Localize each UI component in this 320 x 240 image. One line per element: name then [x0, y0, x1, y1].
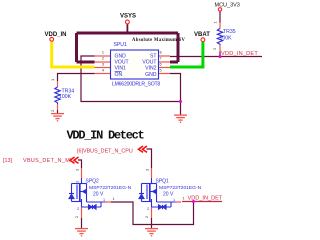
svg-text:VDD_IN_DET: VDD_IN_DET — [221, 51, 258, 57]
svg-text:3: 3 — [102, 63, 104, 67]
svg-text:VIN2: VIN2 — [145, 66, 156, 72]
svg-text:100K: 100K — [220, 36, 233, 42]
svg-text:1: 1 — [173, 198, 175, 202]
svg-text:2: 2 — [75, 216, 79, 218]
svg-text:3: 3 — [146, 169, 150, 171]
svg-text:2: 2 — [145, 216, 149, 218]
svg-text:2: 2 — [147, 207, 149, 211]
svg-text:1: 1 — [213, 21, 218, 24]
svg-text:VDD_IN: VDD_IN — [45, 32, 67, 38]
svg-text:VSYS: VSYS — [120, 14, 136, 20]
svg-text:MSP723T201EG-N: MSP723T201EG-N — [159, 185, 202, 191]
svg-text:SPQ1: SPQ1 — [156, 179, 170, 185]
svg-text:VBUS_DET_N_MI: VBUS_DET_N_MI — [23, 158, 72, 164]
svg-text:20 V: 20 V — [163, 192, 174, 198]
svg-text:2: 2 — [102, 57, 104, 61]
svg-text:MSP723T201EG-N: MSP723T201EG-N — [89, 185, 132, 191]
svg-text:[6]VBUS_DET_N_CPU: [6]VBUS_DET_N_CPU — [77, 148, 133, 154]
svg-text:20 V: 20 V — [93, 192, 104, 198]
svg-text:1: 1 — [103, 198, 105, 202]
svg-text:1: 1 — [183, 197, 185, 201]
svg-text:LM66200DRLR_SOT8: LM66200DRLR_SOT8 — [112, 82, 160, 88]
svg-text:VDD_IN_DET: VDD_IN_DET — [188, 196, 223, 202]
svg-text:[13]: [13] — [3, 158, 12, 164]
svg-text:VDD_IN Detect: VDD_IN Detect — [67, 129, 145, 143]
svg-text:5: 5 — [160, 69, 162, 73]
svg-text:2: 2 — [212, 47, 217, 50]
svg-text:3: 3 — [76, 181, 80, 183]
svg-text:8: 8 — [160, 51, 162, 55]
svg-text:ST: ST — [150, 54, 157, 60]
svg-text:7: 7 — [160, 57, 162, 61]
svg-text:MCU_3V3: MCU_3V3 — [215, 2, 240, 8]
svg-text:VBAT: VBAT — [194, 32, 210, 38]
svg-text:TR35: TR35 — [223, 29, 236, 35]
svg-text:SPQ2: SPQ2 — [86, 179, 100, 185]
svg-text:2: 2 — [77, 207, 79, 211]
svg-text:ON: ON — [115, 72, 123, 78]
svg-text:100K: 100K — [59, 94, 72, 100]
svg-text:Absolute Maximum 6V: Absolute Maximum 6V — [132, 38, 186, 43]
svg-text:GND: GND — [115, 54, 127, 60]
svg-text:6: 6 — [160, 63, 162, 67]
svg-text:4: 4 — [102, 69, 104, 73]
svg-text:VIN1: VIN1 — [115, 66, 126, 72]
svg-text:GND: GND — [145, 72, 157, 78]
svg-text:2: 2 — [50, 109, 55, 112]
svg-text:1: 1 — [50, 78, 55, 81]
svg-text:3: 3 — [76, 169, 80, 171]
svg-text:SPU1: SPU1 — [114, 42, 127, 48]
svg-text:1: 1 — [102, 51, 104, 55]
svg-text:1: 1 — [113, 197, 115, 201]
